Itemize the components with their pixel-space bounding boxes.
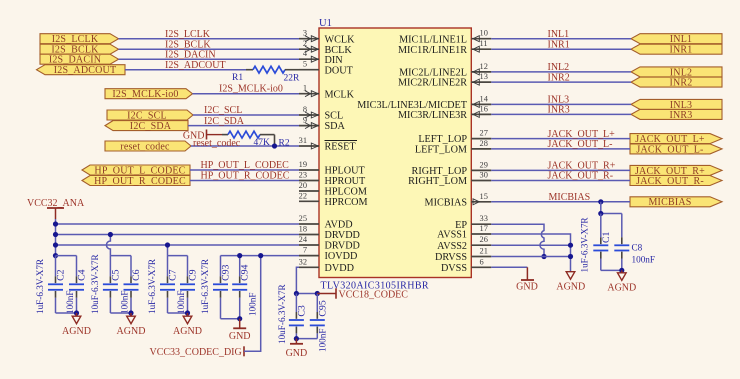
pin 11 MIC1R/LINE1R (right) <box>398 39 491 56</box>
svg-text:25: 25 <box>299 214 307 223</box>
svg-text:INR3: INR3 <box>548 105 570 116</box>
junction VCC32 rail <box>53 221 58 226</box>
wire C7/C9 top rail <box>168 255 188 257</box>
wire INL3 <box>491 103 631 105</box>
wire I2S_ADCOUT (port to R1) <box>125 69 246 71</box>
svg-text:JACK_OUT_L-: JACK_OUT_L- <box>636 144 703 155</box>
svg-text:DOUT: DOUT <box>325 65 354 76</box>
svg-text:10uF-6.3V-X7R: 10uF-6.3V-X7R <box>277 283 287 344</box>
svg-text:AGND: AGND <box>556 282 585 293</box>
wire C3/C95 top rail <box>296 293 317 295</box>
wire C2/C4 top rail <box>56 255 77 257</box>
svg-text:30: 30 <box>480 171 488 180</box>
wire C7 feed <box>167 245 169 256</box>
port I2S_ADCOUT <box>37 65 126 76</box>
svg-text:MICBIAS: MICBIAS <box>549 192 591 203</box>
wire JACK_OUT_R- <box>491 180 630 182</box>
power AGND (AVSS) <box>556 272 585 293</box>
svg-text:C6: C6 <box>131 269 142 281</box>
pin 14 MIC3L/LINE3L/MICDET (right) <box>357 94 491 111</box>
pin 13 MIC2R/LINE2R (right) <box>398 72 491 89</box>
svg-text:16: 16 <box>480 104 488 113</box>
port I2C_SDA <box>105 121 188 132</box>
wire AVSS1 <box>491 234 570 272</box>
svg-text:MIC1L/LINE1L: MIC1L/LINE1L <box>399 34 467 45</box>
svg-text:C5: C5 <box>110 269 121 281</box>
port INR3 <box>631 109 722 120</box>
wire DRVDD row (pin 18) <box>56 234 300 236</box>
svg-text:INR2: INR2 <box>548 72 570 83</box>
net label I2S_LCLK <box>165 29 211 40</box>
net label I2C_SDA <box>204 116 245 127</box>
svg-text:15: 15 <box>480 192 488 201</box>
svg-text:AGND: AGND <box>607 283 636 294</box>
junction C4 bottom <box>74 310 79 315</box>
svg-text:SCL: SCL <box>325 111 344 122</box>
svg-text:7: 7 <box>303 246 307 255</box>
port I2S_BCLK <box>40 44 119 55</box>
svg-text:SDA: SDA <box>325 121 346 132</box>
wire C5/C6 bottom rail <box>110 312 131 314</box>
svg-text:20: 20 <box>299 181 307 190</box>
svg-text:32: 32 <box>299 257 307 266</box>
port reset_codec <box>105 141 191 152</box>
net label INR2 <box>548 72 570 83</box>
svg-text:MICBIAS: MICBIAS <box>648 197 691 208</box>
svg-text:MIC3R/LINE3R: MIC3R/LINE3R <box>398 110 467 121</box>
svg-text:GND: GND <box>286 348 308 359</box>
svg-text:1uF-6.3V-X7R: 1uF-6.3V-X7R <box>580 217 590 273</box>
net label JACK_OUT_L+ <box>548 129 616 140</box>
wire I2S_LCLK <box>119 38 300 40</box>
svg-text:DVDD: DVDD <box>325 263 354 274</box>
wire DVDD to C3/C95 <box>296 267 299 293</box>
svg-text:47K: 47K <box>254 138 271 148</box>
capacitor C93 1uF-6.3V-X7R <box>200 256 232 319</box>
port JACK_OUT_R- <box>630 176 722 187</box>
resistor R2 47K <box>222 131 290 148</box>
svg-text:R2: R2 <box>279 138 290 148</box>
wire INR2 <box>491 81 631 83</box>
svg-text:23: 23 <box>299 171 307 180</box>
pin 12 MIC2L/LINE2L (right) <box>399 62 491 79</box>
svg-text:100nF: 100nF <box>318 329 328 353</box>
svg-text:C7: C7 <box>168 269 179 281</box>
svg-text:12: 12 <box>480 62 488 71</box>
pin 16 MIC3R/LINE3R (right) <box>398 104 491 121</box>
junction EP-DRVSS <box>541 254 546 259</box>
svg-text:AGND: AGND <box>173 326 202 337</box>
svg-text:AVDD: AVDD <box>325 220 353 231</box>
net label reset_codec <box>193 138 241 149</box>
pin 26 AVSS2 (right) <box>437 235 491 252</box>
svg-text:DIN: DIN <box>325 55 344 66</box>
capacitor C7 1uF-6.3V-X7R <box>147 256 179 314</box>
svg-text:INL1: INL1 <box>670 34 692 45</box>
junction R2-reset <box>272 143 277 148</box>
pin 5 DOUT (left) <box>299 60 354 77</box>
svg-text:IOVDD: IOVDD <box>325 251 358 262</box>
designator U1 <box>319 18 332 29</box>
svg-text:1uF-6.3V-X7R: 1uF-6.3V-X7R <box>35 258 45 314</box>
pin 6 DVSS (right) <box>441 257 491 274</box>
resistor R1 22R <box>232 66 300 83</box>
svg-text:I2S_ADCOUT: I2S_ADCOUT <box>54 65 117 76</box>
svg-text:10: 10 <box>480 29 488 38</box>
svg-text:C95: C95 <box>317 300 328 316</box>
power GND (DVSS) <box>516 267 538 292</box>
svg-text:VCC33_CODEC_DIG: VCC33_CODEC_DIG <box>150 347 242 358</box>
junction VCC32 rail <box>53 253 58 258</box>
capacitor C5 10uF-6.3V-X7R <box>90 253 122 314</box>
svg-text:RESET: RESET <box>325 142 357 153</box>
junction C5 feed <box>108 232 113 237</box>
svg-text:VCC18_CODEC: VCC18_CODEC <box>339 290 409 301</box>
net label INR1 <box>548 39 570 50</box>
svg-text:1uF-6.3V-X7R: 1uF-6.3V-X7R <box>147 258 157 314</box>
svg-text:I2S_MCLK-io0: I2S_MCLK-io0 <box>112 89 178 100</box>
svg-text:HPROUT: HPROUT <box>325 176 367 187</box>
svg-text:14: 14 <box>480 94 489 103</box>
svg-text:DVSS: DVSS <box>441 263 467 274</box>
junction C3 top <box>294 291 299 296</box>
svg-text:10uF-6.3V-X7R: 10uF-6.3V-X7R <box>90 253 100 314</box>
net label INL2 <box>548 62 570 73</box>
port INR2 <box>631 77 722 88</box>
junction DRVSS <box>568 254 573 259</box>
svg-text:I2S_LCLK: I2S_LCLK <box>165 29 211 40</box>
svg-text:HPLOUT: HPLOUT <box>325 166 366 177</box>
svg-text:INR1: INR1 <box>669 45 692 56</box>
wire C5/C6 top rail <box>110 255 131 257</box>
pin 17 AVSS1 (right) <box>437 224 491 241</box>
port JACK_OUT_L+ <box>630 134 722 145</box>
svg-text:24: 24 <box>299 235 308 244</box>
net label I2S_DACIN <box>165 50 216 61</box>
pin 31 RESET (left) <box>299 136 357 153</box>
svg-text:LEFT_LOM: LEFT_LOM <box>415 145 467 156</box>
wire DRVSS <box>491 256 570 258</box>
junction VCC32 rail <box>53 242 58 247</box>
svg-text:5: 5 <box>303 60 307 69</box>
junction C94 bottom <box>237 316 242 321</box>
svg-text:JACK_OUT_L-: JACK_OUT_L- <box>548 139 613 150</box>
svg-text:I2C_SDA: I2C_SDA <box>130 121 172 132</box>
svg-text:I2S_MCLK-io0: I2S_MCLK-io0 <box>219 84 283 95</box>
svg-text:JACK_OUT_R-: JACK_OUT_R- <box>636 176 704 187</box>
svg-text:HPRCOM: HPRCOM <box>325 197 368 208</box>
net label I2S_ADCOUT <box>165 60 226 71</box>
pin 25 AVDD (left) <box>299 214 353 231</box>
power AGND (C7/C9) <box>173 313 202 337</box>
pin 28 LEFT_LOM (right) <box>415 139 491 156</box>
svg-text:DRVDD: DRVDD <box>325 241 360 252</box>
pin 33 EP (right) <box>455 214 491 231</box>
wire VCC32 vertical <box>55 219 57 256</box>
power AGND (C2/C4) <box>62 313 91 337</box>
svg-text:I2S_LCLK: I2S_LCLK <box>52 34 99 45</box>
svg-text:HP_OUT_R_CODEC: HP_OUT_R_CODEC <box>94 176 186 187</box>
port HP_OUT_R_CODEC <box>82 176 190 187</box>
svg-text:19: 19 <box>299 160 307 169</box>
capacitor C2 1uF-6.3V-X7R <box>35 256 67 314</box>
junction C1 top <box>598 211 603 216</box>
pin 30 RIGHT_LOM (right) <box>408 171 491 188</box>
power GND (reset pull resistor) <box>183 130 222 142</box>
port INL2 <box>631 67 722 78</box>
pin 22 HPRCOM (left) <box>299 191 368 208</box>
pin 15 MICBIAS (right) <box>425 192 492 209</box>
capacitor C94 100nF <box>232 256 257 319</box>
pin 7 IOVDD (left) <box>299 246 357 263</box>
pin 2 BCLK (left) <box>299 39 352 56</box>
capacitor C9 100nF <box>176 256 199 314</box>
svg-text:reset_codec: reset_codec <box>120 141 170 152</box>
svg-text:C1: C1 <box>601 231 612 243</box>
svg-text:C4: C4 <box>77 269 88 281</box>
svg-text:MICBIAS: MICBIAS <box>425 197 468 208</box>
svg-text:29: 29 <box>480 160 488 169</box>
port MICBIAS <box>630 197 722 208</box>
wire HP_OUT_R_CODEC <box>190 180 299 182</box>
pin 9 SDA (left) <box>299 116 346 133</box>
svg-text:WCLK: WCLK <box>325 34 356 45</box>
svg-text:DRVSS: DRVSS <box>435 252 467 263</box>
svg-text:R1: R1 <box>232 73 243 83</box>
port INL3 <box>631 99 722 110</box>
port I2S_DACIN <box>40 54 119 65</box>
wire I2S_BCLK <box>119 48 300 50</box>
wire I2C_SCL <box>193 114 299 116</box>
svg-text:C3: C3 <box>296 305 307 317</box>
wire JACK_OUT_L- <box>491 148 630 150</box>
capacitor C3 10uF-6.3V-X7R <box>277 283 307 344</box>
wire VCC33 feed <box>244 256 261 352</box>
svg-text:22R: 22R <box>284 74 301 84</box>
svg-text:27: 27 <box>480 129 488 138</box>
svg-text:MIC1R/LINE1R: MIC1R/LINE1R <box>398 45 467 56</box>
capacitor C8 100nF <box>614 214 655 271</box>
net label I2C_SCL <box>204 105 242 116</box>
svg-text:33: 33 <box>480 214 488 223</box>
port INR1 <box>631 44 722 55</box>
svg-text:28: 28 <box>480 139 488 148</box>
net label I2S_MCLK-io0 <box>219 84 283 95</box>
wire I2S_MCLK-io0 <box>193 93 300 95</box>
wire JACK_OUT_L+ <box>491 138 630 140</box>
junction C8 bottom <box>619 268 624 273</box>
power AGND (C1/C8) <box>607 270 636 293</box>
port JACK_OUT_R+ <box>630 165 722 176</box>
power VCC33_CODEC_DIG <box>150 346 245 358</box>
wire EP to cascade <box>491 224 544 256</box>
svg-text:100nF: 100nF <box>65 291 75 315</box>
power VCC32_ANA <box>27 198 85 219</box>
wire DVSS <box>491 266 527 268</box>
wire INL1 <box>491 38 631 40</box>
pin 32 DVDD (left) <box>299 257 354 274</box>
svg-text:31: 31 <box>299 136 307 145</box>
svg-text:INR3: INR3 <box>669 110 692 121</box>
wire reset_codec <box>191 145 299 147</box>
net label JACK_OUT_R- <box>548 171 614 182</box>
net label INR3 <box>548 105 570 116</box>
svg-text:18: 18 <box>299 225 307 234</box>
svg-text:C9: C9 <box>188 269 199 281</box>
svg-text:RIGHT_LOM: RIGHT_LOM <box>408 176 467 187</box>
svg-text:100nF: 100nF <box>632 255 656 265</box>
wire IOVDD rail <box>221 255 300 257</box>
svg-text:AGND: AGND <box>117 326 146 337</box>
svg-text:AGND: AGND <box>62 326 91 337</box>
junction C6 bottom <box>128 310 133 315</box>
power AGND (C5/C6) <box>117 313 146 337</box>
svg-text:6: 6 <box>480 257 484 266</box>
junction C95 top <box>315 291 320 296</box>
junction VCC33-IOVDD <box>258 253 263 258</box>
power VCC18_CODEC <box>317 288 408 300</box>
net label JACK_OUT_R+ <box>548 161 616 172</box>
capacitor C95 100nF <box>310 294 329 353</box>
pin 1 MCLK (left) <box>299 84 355 101</box>
svg-text:JACK_OUT_R-: JACK_OUT_R- <box>548 171 614 182</box>
net label JACK_OUT_L- <box>548 139 613 150</box>
svg-text:I2C_SCL: I2C_SCL <box>204 105 242 116</box>
svg-text:C8: C8 <box>632 243 643 253</box>
svg-text:HP_OUT_L_CODEC: HP_OUT_L_CODEC <box>94 165 185 176</box>
junction C9 bottom <box>185 310 190 315</box>
junction AVSS2 <box>568 243 573 248</box>
wire INR3 <box>491 113 631 115</box>
port JACK_OUT_L- <box>630 144 722 155</box>
svg-text:100nF: 100nF <box>176 291 186 315</box>
port INL1 <box>631 34 722 45</box>
power GND (C3/C95) <box>286 339 308 359</box>
capacitor C4 100nF <box>65 256 88 314</box>
wire MICBIAS <box>491 201 630 203</box>
pin 8 SCL (left) <box>299 105 343 122</box>
svg-text:17: 17 <box>480 224 488 233</box>
net label INL3 <box>548 95 570 106</box>
svg-text:22: 22 <box>299 191 307 200</box>
part number label TLV320AIC3105IRHBR <box>321 281 430 292</box>
svg-text:MIC2R/LINE2R: MIC2R/LINE2R <box>398 78 467 89</box>
port HP_OUT_L_CODEC <box>82 165 190 176</box>
pin 10 MIC1L/LINE1L (right) <box>399 29 491 46</box>
wire I2S_DACIN <box>119 58 300 60</box>
junction MICBIAS-C1 <box>598 199 603 204</box>
junction C94 top <box>237 253 242 258</box>
svg-text:26: 26 <box>480 235 488 244</box>
op-amp U1 codec IC body TLV320AIC3105IRHBR <box>319 28 471 278</box>
svg-text:I2S_ADCOUT: I2S_ADCOUT <box>165 60 226 71</box>
svg-text:1uF-6.3V-X7R: 1uF-6.3V-X7R <box>200 258 210 314</box>
svg-text:AVSS2: AVSS2 <box>437 241 467 252</box>
wire C7/C9 bottom rail <box>168 312 188 314</box>
junction VCC32 rail <box>53 232 58 237</box>
pin 21 DRVSS (right) <box>435 247 491 264</box>
net label HP_OUT_R_CODEC <box>201 171 290 182</box>
pin 4 DIN (left) <box>299 49 343 66</box>
wire JACK_OUT_R+ <box>491 169 630 171</box>
junction C7 feed <box>165 242 170 247</box>
port I2S_MCLK-io0 <box>105 89 193 100</box>
wire C5 feed (hop over DRVDD row) <box>106 235 110 256</box>
svg-text:C93: C93 <box>221 264 232 280</box>
svg-text:100nF: 100nF <box>120 291 130 315</box>
svg-text:INR1: INR1 <box>548 39 570 50</box>
svg-text:C2: C2 <box>56 269 67 281</box>
wire C3/C95 bottom rail <box>296 338 317 340</box>
port I2S_LCLK <box>40 34 119 45</box>
capacitor C1 1uF-6.3V-X7R <box>580 214 612 273</box>
svg-text:MCLK: MCLK <box>325 89 355 100</box>
pin 18 DRVDD (left) <box>299 225 360 242</box>
power GND (C93/C94) <box>229 319 251 342</box>
wire C93/C94 bottom rail <box>221 318 240 320</box>
pin 3 WCLK (left) <box>299 29 355 46</box>
svg-text:C94: C94 <box>240 264 251 280</box>
svg-text:11: 11 <box>480 39 488 48</box>
svg-text:I2C_SDA: I2C_SDA <box>204 116 245 127</box>
svg-text:I2S_DACIN: I2S_DACIN <box>165 50 216 61</box>
net label MICBIAS <box>549 192 591 203</box>
svg-text:13: 13 <box>480 72 488 81</box>
wire HP_OUT_L_CODEC <box>190 169 299 171</box>
svg-text:GND: GND <box>229 331 251 342</box>
net label INL1 <box>548 29 570 40</box>
svg-text:HP_OUT_R_CODEC: HP_OUT_R_CODEC <box>201 171 290 182</box>
pin 23 HPROUT (left) <box>299 171 366 188</box>
wire I2C_SDA <box>188 125 299 127</box>
svg-text:INL1: INL1 <box>548 29 570 40</box>
wire INR1 <box>491 48 631 50</box>
svg-text:I2S_DACIN: I2S_DACIN <box>49 55 101 66</box>
net label HP_OUT_L_CODEC <box>201 160 290 171</box>
wire C1/C8 bottom rail <box>601 269 622 271</box>
pin 24 DRVDD (left) <box>299 235 360 252</box>
svg-text:HP_OUT_L_CODEC: HP_OUT_L_CODEC <box>201 160 290 171</box>
svg-text:DRVDD: DRVDD <box>325 230 360 241</box>
wire AVSS2 <box>491 244 570 246</box>
svg-text:AVSS1: AVSS1 <box>437 230 467 241</box>
svg-text:U1: U1 <box>319 18 332 29</box>
wire MICBIAS to C1/C8 rail <box>601 202 622 214</box>
svg-text:GND: GND <box>516 282 538 293</box>
svg-text:100nF: 100nF <box>248 293 258 317</box>
svg-text:GND: GND <box>183 130 205 141</box>
svg-text:INR2: INR2 <box>669 78 692 89</box>
pin 27 LEFT_LOP (right) <box>418 129 491 146</box>
svg-text:21: 21 <box>480 247 488 256</box>
pin 19 HPLOUT (left) <box>299 160 366 177</box>
svg-text:I2C_SCL: I2C_SCL <box>127 110 167 121</box>
net label I2S_BCLK <box>165 40 211 51</box>
wire C2/C4 bottom rail <box>56 312 77 314</box>
wire AVDD row <box>56 223 300 225</box>
junction C3 bottom <box>294 336 299 341</box>
pin 29 RIGHT_LOP (right) <box>412 160 492 177</box>
wire INL2 <box>491 71 631 73</box>
pin 20 HPLCOM (left) <box>299 181 367 198</box>
wire DRVDD row (pin 24) <box>56 244 300 246</box>
capacitor C6 100nF <box>120 256 143 314</box>
port I2C_SCL <box>107 110 193 121</box>
